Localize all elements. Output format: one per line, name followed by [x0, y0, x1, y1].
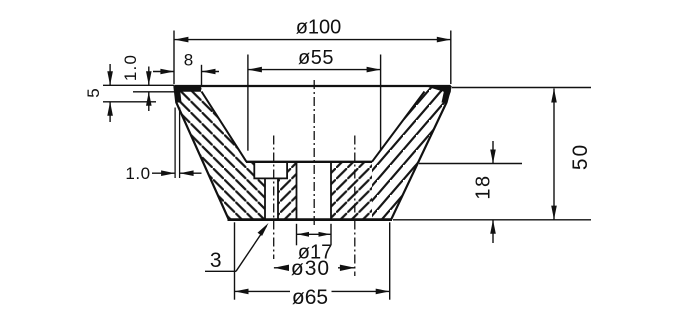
label 3 leader line	[236, 226, 267, 271]
svg-text:ø30: ø30	[291, 257, 330, 280]
svg-text:ø55: ø55	[298, 47, 334, 69]
dim 18 arrow down	[490, 150, 496, 164]
dim o17 extension line left	[296, 224, 298, 246]
svg-text:ø65: ø65	[292, 286, 328, 309]
hatching base between screw hole and bore (45 deg slash)	[278, 162, 297, 220]
dim o17 line	[297, 233, 331, 235]
bore right edge	[330, 162, 332, 220]
wheel outer profile left	[174, 86, 228, 219]
dim o65 arrow left	[235, 289, 249, 295]
dim 1.0 lower right tail	[180, 172, 202, 174]
dim o100 extension line left	[173, 31, 175, 85]
dim 1.0 top arrow up	[146, 92, 152, 106]
dim o17 extension line right	[330, 224, 332, 246]
dim 1.0 lower extension line left (x 175.1)	[174, 108, 176, 179]
extension line top face right	[452, 87, 591, 89]
dim o55 line	[248, 69, 381, 71]
dim o55 extension line left	[247, 55, 249, 151]
svg-text:8: 8	[184, 50, 193, 69]
dim 1.0 lower left tail	[152, 172, 175, 174]
label 3 underline	[205, 270, 236, 272]
abrasive layer black wedge top-right	[425, 86, 451, 103]
dim 5 vertical line above	[109, 64, 111, 85]
dim 8 arrow left	[160, 69, 174, 75]
extension line cup floor right	[419, 163, 522, 165]
dim o30 arrow right	[340, 265, 355, 271]
wheel bottom face line	[228, 218, 393, 221]
cup floor line	[246, 161, 372, 163]
screw hole centerline right	[354, 136, 356, 277]
screw hole centerline left	[273, 136, 275, 260]
screw hole left edge	[264, 178, 266, 219]
dim 8 extension line	[201, 65, 203, 86]
dim o55 arrow left	[248, 67, 262, 73]
extension line top face left (y 85.3)	[103, 84, 174, 86]
dim 50 line	[553, 89, 555, 220]
extension line abrasive bar bottom (y 91.8)	[133, 91, 174, 93]
extension line abrasive land bottom (y 101.8)	[103, 101, 156, 103]
dim 18 line above	[492, 141, 494, 164]
wheel top face line	[174, 85, 450, 87]
dim 1.0 top arrow down	[146, 71, 152, 85]
dim 50 arrow up	[551, 89, 557, 103]
dim o65 extension line left	[234, 222, 236, 299]
counterbore outline	[254, 162, 287, 179]
dim o65 line right segment	[332, 290, 390, 292]
dim 18 line below	[492, 220, 494, 243]
abrasive layer black wedge top-left	[174, 86, 201, 103]
dim o100 arrow right	[437, 37, 451, 43]
svg-text:3: 3	[210, 249, 222, 272]
dim o100 extension line right	[450, 31, 452, 85]
dim 8 line left tail	[153, 71, 174, 73]
wheel outer profile right	[391, 86, 451, 220]
hatching right wall (steep slash)	[372, 86, 451, 220]
dim o65 arrow right	[376, 289, 390, 295]
dim o30 line left segment	[274, 267, 288, 269]
dim o55 extension line right	[380, 55, 382, 151]
dim 8 line right tail	[202, 71, 220, 73]
bore left edge	[296, 162, 298, 220]
dim 1.0 lower arrow left	[180, 170, 194, 176]
dim 1.0 lower arrow right	[161, 170, 175, 176]
dim 1.0 top vertical line above	[148, 67, 150, 86]
svg-text:1.0: 1.0	[121, 54, 140, 81]
label 3 leader arrow	[258, 223, 269, 236]
dim o30 arrow left	[274, 265, 289, 271]
hatching base right of bore (45 deg slash)	[331, 162, 372, 220]
dim 8 arrow right	[202, 69, 216, 75]
hatching left wall and base (45 deg backslash)	[174, 86, 265, 220]
dim 5 arrow up	[107, 102, 113, 116]
cup inner wall left	[202, 92, 247, 162]
dim o100 arrow left	[174, 37, 188, 43]
dim o65 line left segment	[235, 290, 291, 292]
dim o100 line	[174, 39, 450, 41]
dim 18 arrow up	[490, 220, 496, 234]
dim o55 arrow right	[367, 67, 381, 73]
dim o17 arrow left	[297, 232, 309, 237]
extension line bottom face right	[393, 219, 591, 221]
svg-text:5: 5	[84, 88, 103, 97]
dim o30 line right segment	[338, 267, 355, 269]
cup inner wall right	[372, 92, 425, 162]
dim o17 arrow right	[319, 232, 331, 237]
main centerline	[313, 80, 315, 226]
screw hole right edge	[277, 178, 279, 219]
svg-text:50: 50	[569, 143, 592, 170]
svg-text:18: 18	[473, 174, 495, 199]
dim 1.0 top vertical line below	[148, 92, 150, 111]
dim 1.0 lower extension line right (x 179.6)	[179, 108, 181, 179]
dim 5 arrow down	[107, 71, 113, 85]
dim 50 arrow down	[551, 206, 557, 220]
svg-text:ø100: ø100	[296, 17, 342, 39]
dim 5 vertical line below	[109, 102, 111, 122]
svg-text:1.0: 1.0	[125, 164, 150, 183]
dim o65 extension line right	[389, 222, 391, 299]
